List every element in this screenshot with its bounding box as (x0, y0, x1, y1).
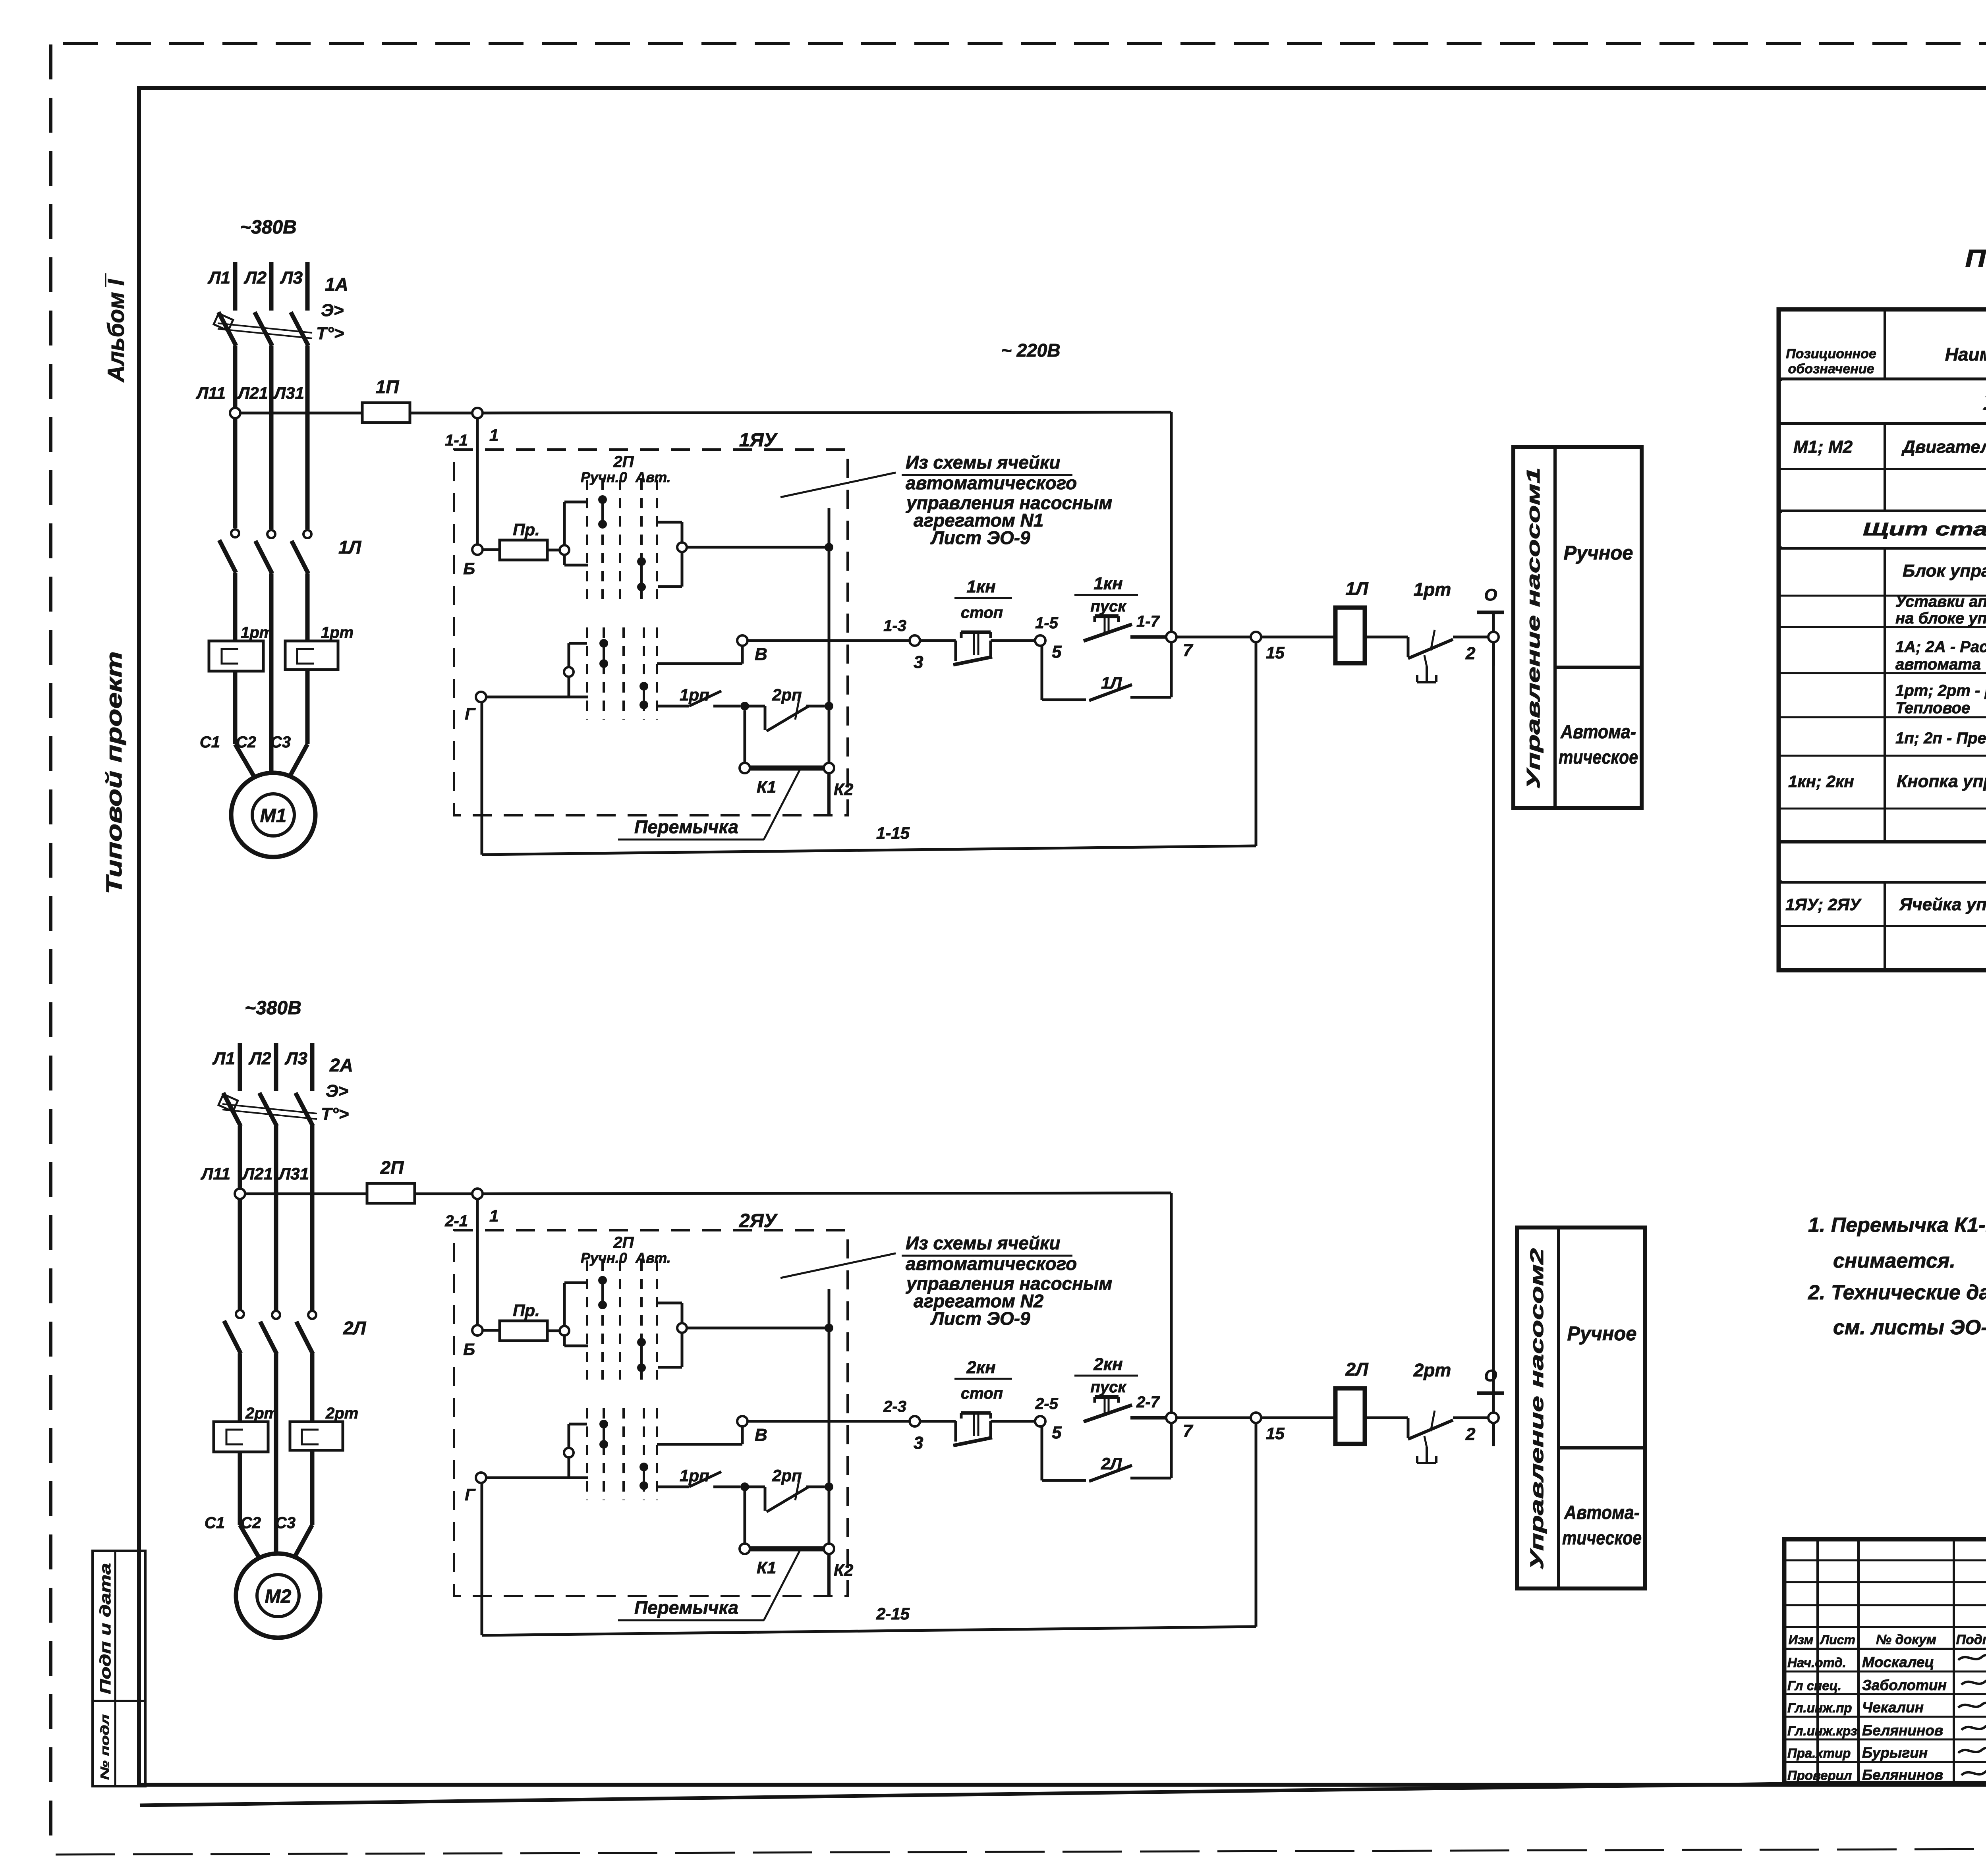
svg-text:№ докум: № докум (1876, 1632, 1936, 1647)
bracket from Б into selector (563, 1283, 566, 1326)
svg-text:1кн; 2кн: 1кн; 2кн (1788, 772, 1854, 791)
selector switch columns (lower group) (586, 1408, 588, 1500)
svg-text:Авт.: Авт. (635, 469, 671, 485)
contactor coil 2Л (1261, 1417, 1335, 1419)
svg-text:Подп и дата: Подп и дата (97, 1563, 114, 1694)
svg-text:Л11: Л11 (201, 1164, 230, 1183)
svg-text:на блоке управления: на блоке управления (1895, 610, 1986, 627)
svg-text:15: 15 (1266, 1424, 1285, 1443)
svg-text:Л11: Л11 (196, 384, 226, 402)
svg-text:Тепловое: Тепловое (1895, 699, 1970, 717)
svg-text:Э>: Э> (326, 1081, 348, 1101)
wire node 7 to node 15 (1177, 1417, 1251, 1419)
selector contacts (upper group) (598, 1276, 607, 1285)
svg-text:1-3: 1-3 (883, 617, 906, 635)
svg-text:Г: Г (465, 1485, 476, 1504)
phase line Л2 (269, 262, 274, 311)
main rail to node 7 (483, 1193, 1171, 1194)
svg-text:Гл спец.: Гл спец. (1787, 1678, 1841, 1693)
node 15 (1251, 1413, 1261, 1423)
table row line (1779, 626, 1986, 628)
phase line Л3 (310, 1043, 315, 1091)
svg-text:М1: М1 (260, 805, 287, 826)
svg-text:Двигатель насоса: Двигатель насоса (1901, 437, 1986, 457)
motor М2 (236, 1554, 320, 1638)
table row line (1779, 468, 1986, 470)
node 5 (1035, 635, 1045, 646)
control cell dashed box 1ЯУ (454, 450, 848, 815)
svg-text:К2: К2 (834, 1561, 853, 1579)
svg-text:Перечень элементов: Перечень элементов (1965, 245, 1986, 272)
svg-text:5: 5 (1052, 642, 1062, 662)
svg-text:Из схемы ячейки: Из схемы ячейки (906, 452, 1060, 473)
node Б (472, 1325, 483, 1336)
svg-text:Б: Б (463, 559, 475, 578)
control fuse 1П (240, 412, 362, 415)
table row line (1779, 510, 1986, 512)
svg-text:Автома-: Автома- (1564, 1502, 1640, 1523)
svg-text:С1: С1 (200, 733, 220, 751)
control fuse 2П (245, 1193, 367, 1195)
svg-text:пуск: пуск (1090, 1378, 1126, 1396)
wire 1-15 return (1255, 642, 1258, 846)
contactor contacts 2Л (236, 1310, 244, 1318)
thermal relay 2рт (pole 3) (290, 1422, 343, 1450)
svg-text:Управление насосом1: Управление насосом1 (1523, 467, 1544, 789)
svg-text:С1: С1 (205, 1514, 225, 1532)
svg-text:2: 2 (1465, 1424, 1476, 1444)
svg-text:2кн: 2кн (966, 1358, 995, 1377)
bracket selector to line В branch (657, 521, 682, 524)
svg-text:1. Перемычка К1-К2 в автома: 1. Перемычка К1-К2 в автоматическом режи… (1808, 1214, 1986, 1237)
О rail linking node 2 of both circuits (1492, 642, 1495, 1413)
svg-text:Л3: Л3 (280, 268, 303, 288)
svg-text:Л2: Л2 (248, 1049, 271, 1068)
svg-text:Л31: Л31 (278, 1164, 309, 1183)
svg-text:Из схемы ячейки: Из схемы ячейки (906, 1233, 1060, 1253)
signature table columns (1816, 1539, 1819, 1783)
circuit breaker 1А (218, 312, 236, 345)
svg-text:1Л: 1Л (338, 537, 362, 558)
svg-text:2Л: 2Л (1101, 1454, 1122, 1473)
svg-text:~380В: ~380В (240, 217, 297, 238)
svg-text:стоп: стоп (961, 1385, 1003, 1402)
svg-text:2кн: 2кн (1093, 1355, 1122, 1374)
terminal О (1477, 1392, 1504, 1395)
fuse Пр (483, 548, 500, 551)
svg-text:К1: К1 (757, 1558, 776, 1577)
svg-text:2рп: 2рп (772, 1466, 802, 1485)
selector switch 2П columns (upper group) (586, 1260, 588, 1380)
svg-text:2-1: 2-1 (444, 1212, 468, 1230)
svg-text:1кн: 1кн (1093, 574, 1122, 593)
svg-text:М2: М2 (265, 1586, 292, 1607)
thermal relay 1рт (pole 1) (209, 641, 263, 671)
svg-text:Л3: Л3 (284, 1049, 307, 1068)
selector switch columns (lower group) (586, 627, 588, 720)
inner bus vertical (828, 508, 831, 768)
svg-text:3: 3 (914, 652, 923, 672)
svg-text:Автома-: Автома- (1560, 722, 1636, 743)
svg-text:1рт: 1рт (1414, 579, 1451, 600)
bracket from Б into selector (563, 502, 566, 545)
svg-text:1-5: 1-5 (1035, 614, 1059, 632)
svg-text:Альбом I̅: Альбом I̅ (103, 273, 129, 383)
svg-text:Ручное: Ручное (1564, 542, 1633, 564)
wire selector to node В (657, 662, 742, 665)
svg-text:Авт.: Авт. (635, 1250, 671, 1266)
motor М1 (231, 773, 315, 857)
table row line (1779, 595, 1986, 597)
svg-text:Пр.: Пр. (513, 520, 540, 539)
contactor coil 1Л (1261, 636, 1335, 639)
contact 1рп (657, 1486, 689, 1488)
node В (737, 635, 748, 646)
svg-text:1-7: 1-7 (1136, 613, 1160, 630)
phase wires below breaker (233, 345, 238, 528)
node Б (472, 544, 483, 555)
svg-text:2-5: 2-5 (1035, 1395, 1059, 1413)
svg-text:Перемычка: Перемычка (634, 816, 738, 837)
svg-text:1-1: 1-1 (445, 432, 468, 449)
svg-text:1Л: 1Л (1101, 674, 1122, 692)
svg-text:Нач.отд.: Нач.отд. (1787, 1655, 1846, 1670)
svg-text:2-3: 2-3 (883, 1398, 906, 1415)
svg-text:С3: С3 (270, 733, 291, 751)
svg-text:Щит станций управления: Щит станций управления Щ. Шкаф №2 (1863, 519, 1986, 539)
frame bottom sag line (140, 1784, 1784, 1805)
svg-text:3: 3 (914, 1433, 923, 1453)
wire В to node 3, label 1-3 (748, 639, 910, 642)
wire 2-15 return (1255, 1423, 1258, 1627)
note: из схемы ячейки (agregate 1) (780, 473, 896, 497)
wire 1-1 (node 1 to Б) (476, 418, 479, 544)
svg-text:Гл.инж.крз: Гл.инж.крз (1787, 1724, 1857, 1738)
svg-text:2. Технические данные электр: 2. Технические данные электрооборудовани… (1808, 1281, 1986, 1304)
phase line Л1 (238, 1043, 242, 1091)
svg-text:1рп: 1рп (680, 685, 709, 704)
node В (737, 1416, 748, 1426)
svg-text:2: 2 (1465, 644, 1476, 663)
node 1 (472, 1189, 483, 1199)
svg-text:пуск: пуск (1090, 598, 1126, 615)
svg-text:Л21: Л21 (237, 384, 268, 402)
node 1 (472, 408, 483, 418)
svg-text:Л31: Л31 (273, 384, 304, 402)
svg-text:2рт: 2рт (1413, 1360, 1451, 1380)
svg-text:В: В (755, 645, 767, 664)
table row line (1779, 881, 1986, 883)
svg-text:2рп: 2рп (772, 685, 802, 704)
wire Г to selector bracket (486, 696, 569, 699)
phase line Л2 (274, 1043, 278, 1091)
svg-text:Ручн.0: Ручн.0 (581, 1250, 627, 1266)
svg-text:2П: 2П (613, 453, 634, 471)
wire fuse to node 1 (410, 412, 472, 415)
wire node 7 to node 15 (1177, 636, 1251, 639)
svg-text:1: 1 (489, 1206, 498, 1225)
contact 2рп (NC) (749, 705, 765, 708)
svg-text:Т°>: Т°> (321, 1104, 349, 1124)
node 15 (1251, 632, 1261, 642)
svg-text:Пр.: Пр. (513, 1301, 540, 1320)
svg-text:Лист: Лист (1820, 1633, 1855, 1647)
node 2 (1488, 1413, 1499, 1423)
svg-text:Управление насосом2: Управление насосом2 (1526, 1248, 1547, 1570)
main rail to node 7 (483, 412, 1171, 413)
element table header row (1779, 378, 1986, 381)
svg-text:Заболотин: Заболотин (1862, 1677, 1947, 1693)
svg-text:К1: К1 (757, 778, 776, 796)
node 7 (1166, 632, 1177, 642)
svg-text:Гл.инж.пр: Гл.инж.пр (1787, 1700, 1852, 1715)
svg-text:Перемычка: Перемычка (634, 1597, 738, 1618)
svg-text:Москалец: Москалец (1862, 1654, 1934, 1670)
terminal О (1477, 611, 1504, 614)
fuse Пр (483, 1329, 500, 1332)
svg-text:2-15: 2-15 (876, 1604, 910, 1623)
svg-text:1рт: 1рт (321, 624, 354, 641)
svg-text:Блок управления: Блок управления (1903, 561, 1986, 581)
svg-text:1П: 1П (376, 376, 400, 397)
svg-text:7: 7 (1183, 1421, 1194, 1441)
title block frame (1784, 1539, 1986, 1783)
svg-text:1рт: 1рт (241, 624, 273, 641)
svg-text:№ подл: № подл (99, 1714, 112, 1780)
svg-text:1А; 2А - Расцепитель: 1А; 2А - Расцепитель (1895, 638, 1986, 656)
svg-text:Л1: Л1 (212, 1049, 235, 1068)
selector switch 1П columns (upper group) (586, 480, 588, 599)
svg-text:О: О (1484, 1366, 1497, 1385)
svg-text:Т°>: Т°> (316, 324, 344, 343)
control cell dashed box 2ЯУ (454, 1230, 848, 1596)
table row line (1779, 841, 1986, 843)
svg-text:Кнопка управления: Кнопка управления (1897, 772, 1986, 791)
svg-text:автомата: автомата (1895, 656, 1981, 673)
svg-text:2П: 2П (613, 1234, 634, 1251)
svg-text:автоматического: автоматического (906, 1253, 1077, 1274)
svg-text:стоп: стоп (961, 604, 1003, 621)
sidebar stamp box Подп и дата (93, 1551, 145, 1701)
svg-text:Ручное: Ручное (1567, 1322, 1637, 1345)
table row line (1779, 808, 1986, 810)
svg-text:Позиционное: Позиционное (1786, 346, 1876, 361)
wire to node 2 (1453, 1417, 1488, 1419)
svg-text:Э>: Э> (321, 301, 344, 320)
table column line (1884, 309, 1886, 970)
svg-text:Проверил: Проверил (1787, 1768, 1852, 1783)
thermal relay 1рт (pole 3) (285, 641, 338, 670)
selector contacts (lower group) (599, 639, 608, 648)
bracket selector to line В branch (657, 1302, 682, 1305)
svg-text:У механизма: У механизма (1982, 393, 1986, 414)
svg-text:1ЯУ: 1ЯУ (739, 430, 778, 451)
table row line (1779, 672, 1986, 674)
table row line (1779, 423, 1986, 425)
svg-text:~380В: ~380В (245, 998, 301, 1019)
svg-text:2П: 2П (380, 1157, 404, 1178)
element table frame (1779, 309, 1986, 970)
svg-text:Пра.хтир: Пра.хтир (1787, 1746, 1851, 1760)
node 5 (1035, 1416, 1045, 1426)
inner bus vertical (828, 1289, 831, 1549)
wire В to node 3, label 2-3 (748, 1420, 910, 1423)
svg-text:Ячейка управления: Ячейка управления (1899, 895, 1986, 914)
svg-text:Белянинов: Белянинов (1862, 1722, 1943, 1739)
contact 1рп (657, 705, 689, 708)
outer dashed border left (49, 44, 52, 1851)
wire selector output to inner bus (687, 1327, 829, 1330)
trip-free release symbol (1426, 1447, 1428, 1463)
phase line Л1 (233, 262, 238, 311)
seal-in contact 2Л (1041, 1426, 1043, 1480)
node 3 (910, 1416, 920, 1426)
svg-text:1А: 1А (325, 274, 348, 295)
jumper К1-К2 (744, 710, 746, 763)
thermal NC contact 2рт (1365, 1417, 1408, 1419)
selector contacts (lower group) (599, 1420, 608, 1428)
svg-text:7: 7 (1183, 641, 1194, 660)
svg-text:1рт; 2рт - реле: 1рт; 2рт - реле (1895, 682, 1986, 699)
svg-text:Л1: Л1 (207, 268, 230, 288)
svg-text:обозначение: обозначение (1788, 361, 1874, 376)
phase wires below breaker (238, 1126, 242, 1309)
circuit breaker 2А (223, 1093, 241, 1126)
thermal NC contact 1рт (1365, 636, 1408, 639)
svg-text:1ЯУ; 2ЯУ: 1ЯУ; 2ЯУ (1785, 895, 1862, 914)
selector contacts (upper group) (598, 495, 607, 504)
svg-text:Лист ЭО-9: Лист ЭО-9 (930, 1308, 1030, 1329)
svg-text:1-15: 1-15 (876, 824, 910, 842)
svg-text:К2: К2 (834, 780, 853, 799)
svg-text:Подпись: Подпись (1956, 1632, 1986, 1647)
svg-text:Бурыгин: Бурыгин (1862, 1745, 1928, 1761)
svg-text:5: 5 (1052, 1423, 1062, 1442)
signatures squiggles (1958, 1655, 1986, 1660)
table row line (1779, 925, 1986, 927)
node Г (476, 692, 486, 702)
wire Г to selector bracket (486, 1476, 569, 1479)
trip-free release symbol (1426, 666, 1428, 682)
svg-text:1кн: 1кн (966, 577, 995, 596)
svg-text:тическое: тическое (1562, 1528, 1642, 1549)
table row line (1779, 547, 1986, 549)
svg-text:М1; М2: М1; М2 (1793, 437, 1853, 457)
seal-in contact 1Л (1041, 646, 1043, 700)
svg-text:1рп: 1рп (680, 1466, 709, 1485)
svg-text:2Л: 2Л (343, 1318, 367, 1338)
wire to node 2 (1453, 636, 1488, 639)
contactor contacts 1Л (231, 529, 239, 537)
section rows mask (full-width) (1782, 380, 1986, 422)
node 2 (1488, 632, 1499, 642)
wire fuse to node 1 (415, 1193, 472, 1195)
note: из схемы ячейки (agregate 2) (780, 1253, 896, 1278)
wire selector to node В (657, 1443, 742, 1446)
mode box Управление насосом2 (1517, 1228, 1645, 1588)
svg-text:см. листы ЭО-4 и ЭО-6: см. листы ЭО-4 и ЭО-6 (1833, 1316, 1986, 1339)
svg-text:1Л: 1Л (1345, 578, 1369, 599)
svg-text:Типовой проект: Типовой проект (101, 651, 126, 894)
svg-text:2А: 2А (329, 1055, 353, 1075)
jumper К1-К2 (744, 1491, 746, 1544)
phase line Л3 (305, 262, 310, 311)
sidebar stamp box № подл (93, 1701, 145, 1786)
svg-text:2Л: 2Л (1345, 1359, 1369, 1380)
svg-text:Л21: Л21 (241, 1164, 273, 1183)
svg-text:Уставки аппаратов: Уставки аппаратов (1895, 593, 1986, 610)
outer dashed border bottom (56, 1847, 1986, 1855)
svg-text:Г: Г (465, 704, 476, 723)
wire 2-1 (node 1 to Б) (476, 1199, 479, 1325)
svg-text:Изм: Изм (1789, 1633, 1814, 1647)
svg-text:В: В (755, 1425, 767, 1445)
svg-text:Белянинов: Белянинов (1862, 1767, 1943, 1783)
svg-text:2рт: 2рт (245, 1405, 278, 1422)
svg-text:1: 1 (489, 426, 498, 444)
svg-text:автоматического: автоматического (906, 473, 1077, 493)
signature table rows (1784, 1559, 1986, 1561)
table row line (1779, 716, 1986, 718)
svg-text:2ЯУ: 2ЯУ (739, 1210, 778, 1231)
mode box Управление насосом1 (1513, 447, 1642, 808)
svg-text:Лист ЭО-9: Лист ЭО-9 (930, 527, 1030, 548)
wire selector output to inner bus (687, 546, 829, 549)
svg-text:Ручн.0: Ручн.0 (581, 469, 627, 485)
svg-text:1п; 2п - Предохранитель: 1п; 2п - Предохранитель (1895, 730, 1986, 747)
node Г (476, 1473, 486, 1483)
outer dashed border top (63, 42, 1986, 45)
node 7 (1166, 1413, 1177, 1423)
svg-text:Чекалин: Чекалин (1862, 1699, 1924, 1716)
thermal relay 2рт (pole 1) (214, 1422, 268, 1452)
svg-text:2рт: 2рт (325, 1405, 358, 1422)
svg-text:Наименование: Наименование (1945, 344, 1986, 365)
svg-text:тическое: тическое (1559, 747, 1638, 768)
svg-text:2-7: 2-7 (1136, 1393, 1160, 1411)
contact 2рп (NC) (749, 1486, 765, 1488)
svg-text:Л2: Л2 (243, 268, 267, 288)
svg-text:15: 15 (1266, 643, 1285, 662)
table row line (1779, 755, 1986, 757)
node 3 (910, 635, 920, 646)
svg-text:~ 220В: ~ 220В (1001, 340, 1061, 361)
svg-text:Б: Б (463, 1340, 475, 1359)
svg-text:снимается.: снимается. (1833, 1249, 1955, 1272)
svg-text:С3: С3 (275, 1514, 296, 1532)
svg-text:О: О (1484, 585, 1497, 604)
